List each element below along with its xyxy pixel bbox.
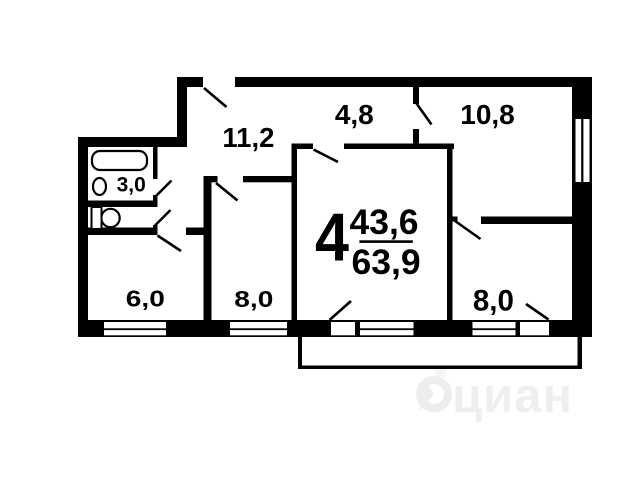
wall bathroom right seg1 <box>153 140 158 179</box>
svg-text:4: 4 <box>315 200 349 276</box>
svg-text:11,2: 11,2 <box>222 122 274 153</box>
wall room 8,0 top seg2 <box>243 176 297 182</box>
wall room 8,0 top seg1 <box>204 176 218 182</box>
svg-text:63,9: 63,9 <box>352 242 421 282</box>
bathtub <box>92 151 147 170</box>
watermark cian logo <box>419 366 448 412</box>
balcony right edge <box>578 337 583 369</box>
toilet tank <box>92 207 102 229</box>
window W1 room 6,0 <box>104 322 166 335</box>
door leaf bathroom <box>156 181 172 197</box>
balcony door opening D2 <box>520 322 549 335</box>
window W3 living room <box>360 322 414 335</box>
svg-text:43,6: 43,6 <box>349 202 418 242</box>
window W4 room 8,0 right <box>473 322 516 335</box>
balcony door opening D1 <box>331 322 355 335</box>
fraction bar <box>359 240 412 243</box>
wall hall/living divider seg2 <box>344 144 454 150</box>
wall living room left <box>292 144 298 321</box>
wall divider 4,8/10,8 seg1 <box>413 87 419 104</box>
wall divider 4,8/10,8 seg2 <box>413 129 419 148</box>
door leaf room 10,8 <box>417 104 432 125</box>
door leaf balcony room 8,0 right <box>526 304 549 320</box>
wall bottom outer <box>78 320 592 337</box>
door leaf wc <box>155 210 171 226</box>
wall room 6,0 top left seg <box>80 228 155 236</box>
wall bathroom right seg2 <box>153 195 158 207</box>
door leaf balcony living room <box>330 301 352 320</box>
window W2 room 8,0 middle <box>230 322 287 335</box>
wall bathroom right seg3 <box>153 225 158 235</box>
wall living room right <box>447 144 453 321</box>
wall divider 6,0/8,0 vertical <box>204 176 212 320</box>
door leaf room 6,0 <box>158 236 182 252</box>
wall bathroom/wc divider <box>88 201 158 208</box>
wall stub at 10,8 door <box>453 217 458 222</box>
svg-text:циан: циан <box>452 369 573 423</box>
door leaf living room <box>314 150 339 163</box>
wall right outer <box>572 77 592 337</box>
window W5 right wall <box>576 119 590 182</box>
door leaf 10,8 to 8,0 <box>453 220 481 240</box>
wall left outer <box>78 137 88 337</box>
svg-text:6,0: 6,0 <box>126 286 165 312</box>
balcony bottom edge <box>298 366 582 370</box>
wall hall/living divider seg1 <box>292 144 314 150</box>
wall room 10,8 bottom <box>481 217 572 225</box>
svg-text:10,8: 10,8 <box>460 99 515 130</box>
balcony left edge <box>298 337 302 369</box>
sink <box>93 178 106 195</box>
wall room 6,0 top right seg <box>186 228 204 236</box>
wall step vertical <box>177 77 187 147</box>
svg-text:8,0: 8,0 <box>473 284 514 317</box>
door leaf entrance <box>204 88 227 107</box>
svg-text:4,8: 4,8 <box>335 99 374 130</box>
wall bathroom top <box>78 137 187 147</box>
svg-text:8,0: 8,0 <box>234 286 273 312</box>
svg-text:3,0: 3,0 <box>117 173 146 196</box>
wall top outer (step corner piece) <box>177 77 203 87</box>
wall top outer (main run) <box>235 77 590 87</box>
toilet bowl <box>101 209 119 227</box>
door leaf room 8,0 middle <box>216 183 238 201</box>
